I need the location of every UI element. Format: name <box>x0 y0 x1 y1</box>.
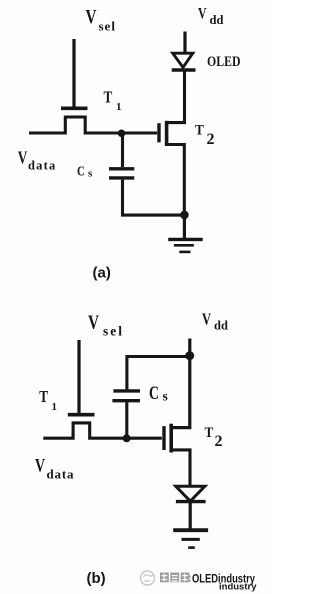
ground symbol circuit b <box>173 530 208 547</box>
wire Vdd down through node D to T2b drain <box>171 339 190 428</box>
wire T2 drain up to OLED cathode <box>165 71 185 123</box>
svg-text:(b): (b) <box>87 570 106 587</box>
wire Vsel vertical b <box>77 340 80 413</box>
node B junction dot <box>180 211 189 220</box>
net Vdd label <box>198 5 223 27</box>
transistor T2 gate plate <box>157 123 160 142</box>
wire Vdata to T1b channel to node C <box>43 423 162 438</box>
svg-text:dd: dd <box>210 13 224 27</box>
svg-text:s: s <box>163 388 168 403</box>
capacitor Cs b top plate <box>113 389 140 392</box>
svg-text:dd: dd <box>214 318 228 332</box>
net Vsel label b <box>88 312 124 339</box>
capacitor Cs b label <box>149 383 168 404</box>
svg-text:C: C <box>77 165 85 180</box>
diode OLED b triangle <box>176 486 205 501</box>
capacitor Cs top plate <box>109 167 134 170</box>
svg-text:OLED: OLED <box>207 54 241 70</box>
wire Cs bottom to node B <box>123 180 185 216</box>
transistor T2b channel bar <box>169 424 173 453</box>
svg-text:V: V <box>198 5 207 22</box>
diode OLED triangle <box>173 53 193 67</box>
wire Vdata to T1 channel to node A <box>29 117 157 133</box>
svg-text:industry: industry <box>219 582 257 593</box>
watermark logo circle <box>141 571 155 585</box>
transistor T1b gate bar <box>68 413 95 417</box>
capacitor Cs b bottom plate <box>112 399 140 402</box>
svg-text:data: data <box>47 467 75 482</box>
ground symbol circuit a <box>168 239 203 252</box>
svg-text:sel: sel <box>103 324 124 339</box>
node D junction dot <box>185 351 194 360</box>
wire diode to ground b <box>189 503 192 529</box>
svg-text:1: 1 <box>116 101 122 113</box>
svg-text:T: T <box>205 425 214 441</box>
wire Cs b bottom plate to node C <box>125 402 128 438</box>
net Vdata label <box>18 148 57 173</box>
transistor T1 label <box>104 87 122 113</box>
node A junction dot <box>118 130 126 138</box>
wire Vsel vertical <box>72 39 75 107</box>
net Vdd label b <box>202 310 228 333</box>
transistor T2 label <box>195 122 215 148</box>
svg-text:V: V <box>35 456 45 477</box>
wire Vdd to OLED anode <box>183 32 186 53</box>
svg-text:1: 1 <box>52 401 58 413</box>
svg-text:2: 2 <box>207 131 215 148</box>
svg-text:C: C <box>149 383 159 404</box>
capacitor Cs bottom plate <box>109 176 134 179</box>
svg-text:(a): (a) <box>93 265 111 282</box>
wire node D to Cs top plate b <box>127 357 188 390</box>
svg-text:T: T <box>104 87 113 106</box>
svg-text:V: V <box>202 310 211 329</box>
svg-text:V: V <box>18 148 28 168</box>
svg-text:T: T <box>195 122 204 138</box>
diode OLED cathode bar <box>172 68 196 71</box>
net Vsel label <box>86 6 116 34</box>
capacitor Cs label <box>77 165 93 180</box>
svg-text:data: data <box>28 159 56 173</box>
svg-text:V: V <box>86 6 97 28</box>
wire T2 source down to node B <box>165 145 184 216</box>
svg-text:2: 2 <box>215 433 223 450</box>
transistor T1 gate bar <box>61 107 88 111</box>
wire node A down to Cs top plate <box>121 134 124 168</box>
transistor T2b label <box>205 425 223 450</box>
node C junction dot <box>123 434 131 442</box>
transistor T1b label <box>39 387 57 413</box>
diode OLED b cathode bar <box>176 500 206 503</box>
svg-text:T: T <box>39 387 48 406</box>
svg-text:V: V <box>88 312 99 334</box>
wire T2b source down to diode anode <box>170 450 191 485</box>
transistor T2b gate plate <box>162 426 165 450</box>
svg-text:s: s <box>88 168 93 180</box>
wire node B to ground <box>183 215 186 239</box>
watermark wechat id text <box>160 573 191 583</box>
transistor T2 channel bar <box>165 121 169 146</box>
svg-text:sel: sel <box>99 19 116 34</box>
net Vdata label b <box>35 456 74 482</box>
